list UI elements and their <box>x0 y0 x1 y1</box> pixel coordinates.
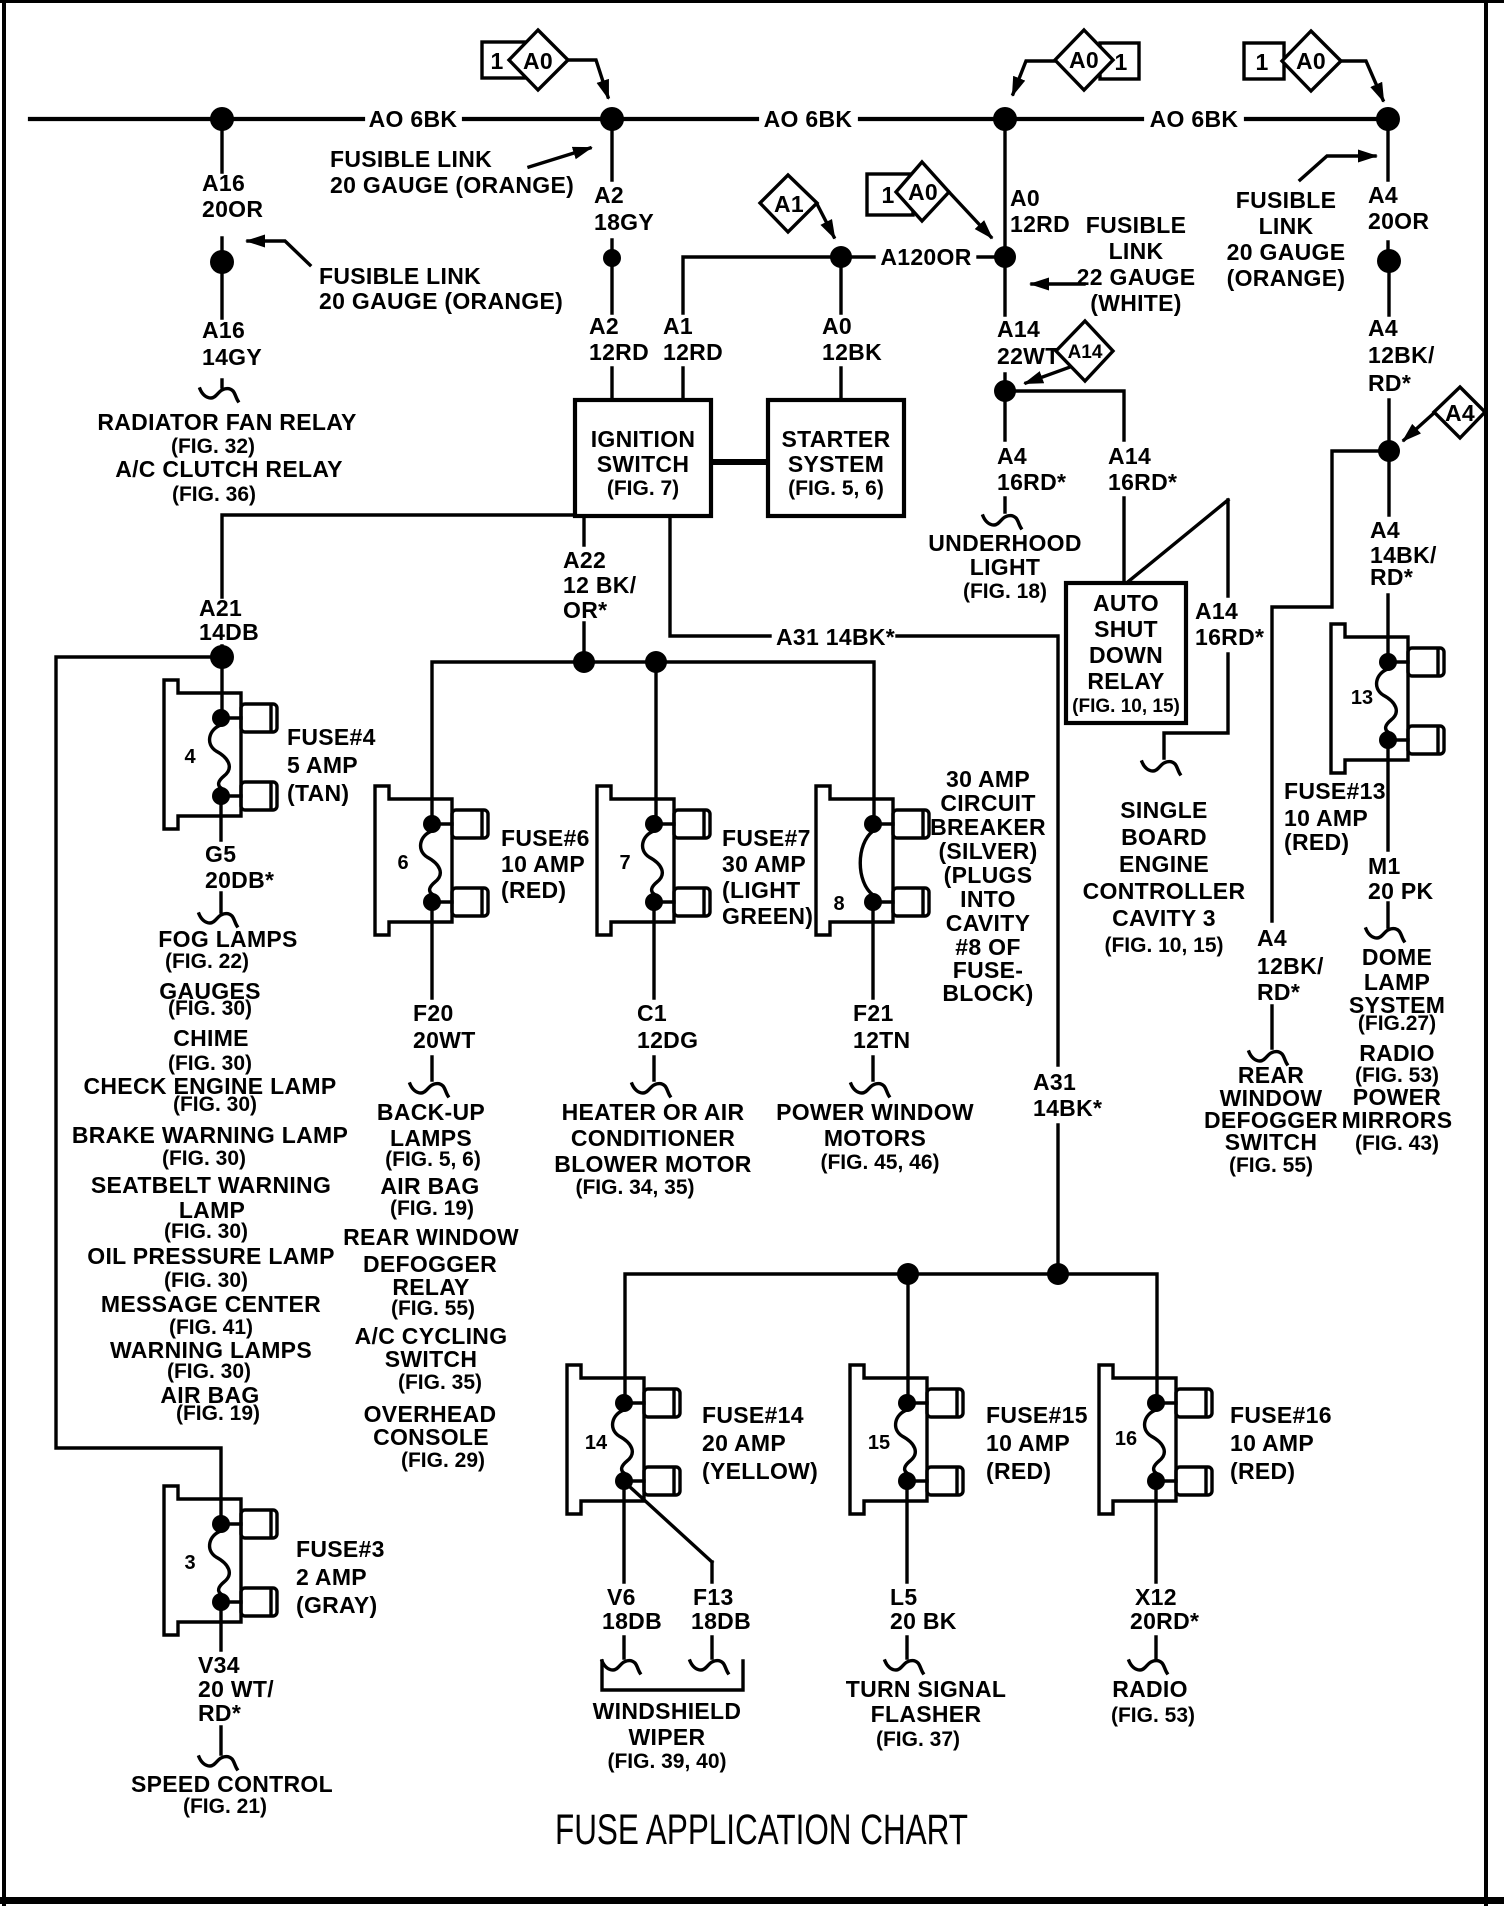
svg-text:4: 4 <box>184 746 196 768</box>
svg-text:SINGLE: SINGLE <box>1120 797 1207 823</box>
svg-text:AUTO: AUTO <box>1093 590 1159 616</box>
svg-text:A0: A0 <box>523 48 553 74</box>
connector to radiator fan relay <box>200 389 238 401</box>
svg-text:FUSE#3: FUSE#3 <box>296 1536 385 1562</box>
svg-text:DOWN: DOWN <box>1089 642 1163 668</box>
svg-text:(FIG. 55): (FIG. 55) <box>1229 1154 1313 1177</box>
arrow from ref A0/1 (middle) to bus junction 3 <box>1013 61 1055 94</box>
connector ref 1/A0 (left) <box>482 30 568 90</box>
node A14 junction <box>994 380 1016 402</box>
svg-text:12TN: 12TN <box>853 1027 910 1053</box>
arrow from ref A1 to A120OR node <box>817 204 834 237</box>
svg-text:FUSE#7: FUSE#7 <box>722 825 811 851</box>
svg-text:(FIG. 21): (FIG. 21) <box>183 1795 267 1818</box>
svg-text:CONTROLLER: CONTROLLER <box>1083 878 1246 904</box>
wire A0 12BK <box>839 268 842 400</box>
svg-text:(GRAY): (GRAY) <box>296 1592 377 1618</box>
svg-text:(FIG. 5, 6): (FIG. 5, 6) <box>788 477 884 500</box>
svg-text:HEATER OR AIR: HEATER OR AIR <box>562 1099 745 1125</box>
svg-text:(WHITE): (WHITE) <box>1090 290 1182 316</box>
svg-text:12 BK/: 12 BK/ <box>563 572 637 598</box>
svg-text:MIRRORS: MIRRORS <box>1342 1107 1453 1133</box>
svg-text:AO 6BK: AO 6BK <box>1150 106 1239 132</box>
svg-text:12DG: 12DG <box>637 1027 698 1053</box>
fuse 16 <box>1099 1365 1212 1514</box>
wire A22 fuse bus <box>432 662 874 824</box>
svg-text:A0: A0 <box>1010 185 1040 211</box>
svg-text:(FIG. 22): (FIG. 22) <box>165 950 249 973</box>
svg-text:A1: A1 <box>663 313 693 339</box>
node A21 junction <box>210 645 234 669</box>
svg-text:A16: A16 <box>202 170 245 196</box>
svg-text:20 WT/: 20 WT/ <box>198 1676 274 1702</box>
connector to single board engine controller <box>1142 762 1180 774</box>
wire A1 12RD <box>683 257 836 400</box>
svg-text:14GY: 14GY <box>202 344 262 370</box>
svg-text:20RD*: 20RD* <box>1130 1608 1199 1634</box>
svg-text:14BK*: 14BK* <box>1033 1095 1102 1121</box>
svg-text:RD*: RD* <box>1257 979 1300 1005</box>
node bus junction 1 <box>210 107 234 131</box>
fuse 7 <box>597 786 710 935</box>
fuse 6 <box>375 786 488 935</box>
wire A21 from ignition switch <box>222 515 575 651</box>
svg-text:FUSE#15: FUSE#15 <box>986 1402 1088 1428</box>
svg-text:A21: A21 <box>199 595 242 621</box>
connector to underhood light <box>983 516 1021 528</box>
svg-text:(FIG. 36): (FIG. 36) <box>172 483 256 506</box>
svg-text:(FIG. 39, 40): (FIG. 39, 40) <box>607 1750 726 1773</box>
wire X12 20RD <box>1154 1481 1157 1658</box>
node bus junction 2 <box>600 107 624 131</box>
svg-text:RADIATOR FAN RELAY: RADIATOR FAN RELAY <box>97 409 356 435</box>
fuse 14 <box>567 1365 680 1514</box>
arrow pointer to A4 wire <box>1300 156 1375 180</box>
svg-text:(FIG. 30): (FIG. 30) <box>168 1052 252 1075</box>
wire A16 from bus to fusible link node <box>220 130 223 251</box>
svg-text:SWITCH: SWITCH <box>597 451 690 477</box>
bracket grouping windshield wiper wires <box>602 1661 743 1690</box>
svg-text:(FIG. 18): (FIG. 18) <box>963 580 1047 603</box>
circuit breaker 8 <box>816 786 929 935</box>
box IGNITION SWITCH <box>575 400 711 516</box>
node A16 fusible link <box>210 250 234 274</box>
svg-text:SYSTEM: SYSTEM <box>788 451 884 477</box>
svg-text:(FIG. 5, 6): (FIG. 5, 6) <box>385 1148 481 1171</box>
svg-text:18GY: 18GY <box>594 209 654 235</box>
svg-text:A0: A0 <box>822 313 852 339</box>
svg-text:RADIO: RADIO <box>1112 1676 1188 1702</box>
svg-text:IGNITION: IGNITION <box>591 426 696 452</box>
svg-text:BOARD: BOARD <box>1121 824 1207 850</box>
svg-text:CONSOLE: CONSOLE <box>373 1424 489 1450</box>
svg-text:2 AMP: 2 AMP <box>296 1564 367 1590</box>
svg-text:(FIG. 7): (FIG. 7) <box>607 477 679 500</box>
connector windshield wiper left <box>602 1661 640 1673</box>
svg-text:A2: A2 <box>589 313 619 339</box>
svg-text:V6: V6 <box>607 1584 636 1610</box>
svg-text:FLASHER: FLASHER <box>871 1701 982 1727</box>
svg-text:20OR: 20OR <box>1368 208 1429 234</box>
svg-text:(FIG. 32): (FIG. 32) <box>171 435 255 458</box>
svg-text:12BK: 12BK <box>822 339 882 365</box>
wire C1 12DG <box>652 902 655 1080</box>
svg-text:13: 13 <box>1351 687 1373 709</box>
svg-text:A2: A2 <box>594 182 624 208</box>
svg-text:A0: A0 <box>1296 48 1326 74</box>
wire V34 20WT/RD <box>219 1602 222 1754</box>
svg-text:12RD: 12RD <box>589 339 649 365</box>
svg-text:FUSIBLE LINK: FUSIBLE LINK <box>319 263 481 289</box>
svg-text:A4: A4 <box>1257 925 1287 951</box>
svg-text:15: 15 <box>868 1432 890 1454</box>
wire fuse 7 feed <box>654 662 657 824</box>
node bus junction 4 <box>1376 107 1400 131</box>
arrow from ref 1/A0 (right) to bus junction 4 <box>1341 61 1383 100</box>
connector to power window motors <box>851 1084 889 1096</box>
svg-text:G5: G5 <box>205 841 236 867</box>
svg-text:A120OR: A120OR <box>880 244 971 270</box>
svg-text:3: 3 <box>184 1552 195 1574</box>
svg-text:1: 1 <box>1114 49 1127 75</box>
svg-text:FUSIBLE: FUSIBLE <box>1086 212 1187 238</box>
svg-text:MOTORS: MOTORS <box>824 1125 926 1151</box>
svg-text:A31: A31 <box>1033 1069 1076 1095</box>
wire F21 12TN <box>871 902 874 1080</box>
svg-text:FUSE#16: FUSE#16 <box>1230 1402 1332 1428</box>
svg-text:20OR: 20OR <box>202 196 263 222</box>
connector to fog lamps group <box>199 914 237 926</box>
connector ref A0/1 (middle) <box>1055 30 1139 90</box>
wire F13 18DB diagonal <box>630 1487 712 1658</box>
svg-text:(FIG. 55): (FIG. 55) <box>391 1297 475 1320</box>
svg-text:(LIGHT: (LIGHT <box>722 877 800 903</box>
svg-text:FUSE#13: FUSE#13 <box>1284 778 1386 804</box>
svg-text:FUSE APPLICATION CHART: FUSE APPLICATION CHART <box>555 1806 968 1854</box>
svg-text:12BK/: 12BK/ <box>1257 953 1324 979</box>
svg-text:CAVITY 3: CAVITY 3 <box>1112 905 1216 931</box>
svg-text:ENGINE: ENGINE <box>1119 851 1209 877</box>
svg-text:(FIG. 10, 15): (FIG. 10, 15) <box>1104 934 1223 957</box>
svg-text:(FIG. 34, 35): (FIG. 34, 35) <box>575 1176 694 1199</box>
svg-text:SPEED CONTROL: SPEED CONTROL <box>131 1771 333 1797</box>
wire L5 20 BK <box>905 1481 908 1658</box>
svg-text:1: 1 <box>881 182 894 208</box>
wire A16 below link node <box>220 273 223 387</box>
svg-text:(FIG. 45, 46): (FIG. 45, 46) <box>820 1151 939 1174</box>
arrow pointer to A2 wire <box>529 148 590 167</box>
svg-text:20 PK: 20 PK <box>1368 878 1434 904</box>
node bottom bus junction (A31) <box>1047 1263 1069 1285</box>
connector to dome lamp system <box>1366 929 1404 941</box>
svg-text:A31 14BK*: A31 14BK* <box>776 624 895 650</box>
wire A31 14BK from ignition switch <box>670 516 1058 1263</box>
svg-text:AO 6BK: AO 6BK <box>764 106 853 132</box>
svg-text:20WT: 20WT <box>413 1027 476 1053</box>
svg-text:FUSE#14: FUSE#14 <box>702 1402 804 1428</box>
svg-text:A4: A4 <box>1370 517 1400 543</box>
svg-text:V34: V34 <box>198 1652 240 1678</box>
svg-text:14: 14 <box>585 1432 608 1454</box>
wire A14 16RD to auto shut down relay <box>1005 391 1124 583</box>
svg-text:(FIG. 30): (FIG. 30) <box>162 1147 246 1170</box>
svg-text:8: 8 <box>833 893 844 915</box>
svg-text:WINDSHIELD: WINDSHIELD <box>593 1698 742 1724</box>
svg-text:(FIG. 29): (FIG. 29) <box>401 1449 485 1472</box>
svg-text:A14: A14 <box>1108 443 1151 469</box>
svg-text:14DB: 14DB <box>199 619 259 645</box>
wire A14 22WT <box>1003 268 1006 381</box>
svg-text:18DB: 18DB <box>691 1608 751 1634</box>
wire bottom feed bus <box>625 1274 1157 1403</box>
svg-text:F20: F20 <box>413 1000 454 1026</box>
svg-text:AO 6BK: AO 6BK <box>369 106 458 132</box>
svg-text:BREAKER: BREAKER <box>930 814 1046 840</box>
wire A2 18GY <box>610 130 613 249</box>
svg-text:A0: A0 <box>1069 47 1099 73</box>
svg-text:BACK-UP: BACK-UP <box>377 1099 485 1125</box>
svg-text:30 AMP: 30 AMP <box>722 851 806 877</box>
wire A4 16RD to underhood light <box>1003 402 1006 512</box>
svg-text:BLOWER MOTOR: BLOWER MOTOR <box>554 1151 751 1177</box>
svg-text:A16: A16 <box>202 317 245 343</box>
svg-text:WIPER: WIPER <box>629 1724 706 1750</box>
svg-text:(FIG. 30): (FIG. 30) <box>164 1220 248 1243</box>
node bottom bus junction (fuse 15 feed) <box>897 1263 919 1285</box>
svg-text:1: 1 <box>1255 49 1268 75</box>
wire A2 12RD <box>610 267 613 400</box>
svg-text:10 AMP: 10 AMP <box>501 851 585 877</box>
connector to speed control <box>199 1757 237 1769</box>
svg-text:(FIG. 41): (FIG. 41) <box>169 1316 253 1339</box>
svg-text:BLOCK): BLOCK) <box>942 980 1033 1006</box>
svg-text:GREEN): GREEN) <box>722 903 813 929</box>
node A120OR junction left <box>830 246 852 268</box>
connector to rear window defogger switch <box>1249 1052 1287 1064</box>
svg-text:(SILVER): (SILVER) <box>938 838 1037 864</box>
svg-text:OR*: OR* <box>563 597 607 623</box>
svg-text:(FIG. 10, 15): (FIG. 10, 15) <box>1072 696 1180 717</box>
svg-text:16RD*: 16RD* <box>997 469 1066 495</box>
svg-text:F13: F13 <box>693 1584 734 1610</box>
svg-text:20 GAUGE (ORANGE): 20 GAUGE (ORANGE) <box>330 172 574 198</box>
arrow from ref A0 to A120OR right node <box>949 192 991 237</box>
node A120OR junction right <box>994 246 1016 268</box>
svg-text:A1: A1 <box>774 191 804 217</box>
fuse 15 <box>850 1365 963 1514</box>
svg-text:RADIO: RADIO <box>1359 1040 1435 1066</box>
svg-text:M1: M1 <box>1368 853 1401 879</box>
svg-text:RELAY: RELAY <box>1087 668 1164 694</box>
svg-text:INTO: INTO <box>960 886 1016 912</box>
wire A4 14BK/RD to fuse 13 <box>1388 462 1389 662</box>
svg-text:A4: A4 <box>1368 315 1398 341</box>
wire A21 into fuse 4 <box>220 668 223 718</box>
svg-text:10 AMP: 10 AMP <box>1230 1430 1314 1456</box>
node A4 fusible link <box>1377 249 1401 273</box>
connector to back-up lamps group <box>410 1084 448 1096</box>
connector windshield wiper right <box>690 1661 728 1673</box>
wire A4 12BK/RD to rear window defogger switch <box>1272 451 1389 1048</box>
arrow from ref A4 to A4 junction <box>1404 413 1434 440</box>
wire A14 16RD diagonal from relay box <box>1129 500 1228 758</box>
svg-text:REAR WINDOW: REAR WINDOW <box>343 1224 519 1250</box>
arrow pointer to A16 wire <box>248 241 310 265</box>
svg-text:A0: A0 <box>908 179 938 205</box>
wire A21 branch to fuse 3 feed <box>56 657 222 1524</box>
connector to heater blower motor <box>632 1084 670 1096</box>
wire A4 20OR <box>1386 130 1389 250</box>
svg-text:SHUT: SHUT <box>1094 616 1158 642</box>
svg-text:(RED): (RED) <box>1230 1458 1295 1484</box>
svg-text:FUSIBLE: FUSIBLE <box>1236 187 1337 213</box>
svg-text:A4: A4 <box>1368 182 1398 208</box>
svg-text:1: 1 <box>490 48 503 74</box>
svg-text:STARTER: STARTER <box>781 426 890 452</box>
wire fuse 15 feed <box>906 1274 909 1403</box>
svg-text:12BK/: 12BK/ <box>1368 342 1435 368</box>
svg-text:UNDERHOOD: UNDERHOOD <box>928 530 1081 556</box>
box AUTO SHUT DOWN RELAY <box>1066 583 1186 723</box>
connector ref 1/A0 (right) <box>1244 31 1341 91</box>
svg-text:POWER WINDOW: POWER WINDOW <box>776 1099 974 1125</box>
svg-text:16: 16 <box>1115 1428 1137 1450</box>
svg-text:RD*: RD* <box>198 1700 241 1726</box>
svg-text:22 GAUGE: 22 GAUGE <box>1077 264 1196 290</box>
node fuse 7 feed junction <box>645 651 667 673</box>
arrow from ref A14 to A14 junction <box>1026 367 1070 383</box>
svg-text:(FIG. 43): (FIG. 43) <box>1355 1132 1439 1155</box>
svg-text:A/C CLUTCH RELAY: A/C CLUTCH RELAY <box>115 456 343 482</box>
svg-text:CIRCUIT: CIRCUIT <box>940 790 1035 816</box>
svg-text:CAVITY: CAVITY <box>946 910 1030 936</box>
svg-text:20 GAUGE (ORANGE): 20 GAUGE (ORANGE) <box>319 288 563 314</box>
node A4 junction <box>1378 440 1400 462</box>
fuse 4 <box>164 680 277 829</box>
svg-text:(FIG.27): (FIG.27) <box>1358 1012 1436 1035</box>
svg-text:FUSE#4: FUSE#4 <box>287 724 376 750</box>
wire A120OR segments <box>852 255 994 258</box>
svg-text:16RD*: 16RD* <box>1195 624 1264 650</box>
svg-text:CHIME: CHIME <box>173 1025 249 1051</box>
svg-text:FOG LAMPS: FOG LAMPS <box>158 926 297 952</box>
svg-text:6: 6 <box>397 852 408 874</box>
svg-text:(RED): (RED) <box>1284 829 1349 855</box>
svg-text:5 AMP: 5 AMP <box>287 752 358 778</box>
svg-text:10 AMP: 10 AMP <box>1284 805 1368 831</box>
fuse 13 <box>1331 624 1444 773</box>
svg-text:20 BK: 20 BK <box>890 1608 957 1634</box>
svg-text:A4: A4 <box>997 443 1027 469</box>
svg-text:LINK: LINK <box>1259 213 1314 239</box>
svg-text:20 GAUGE: 20 GAUGE <box>1227 239 1346 265</box>
wire between ignition switch and starter system <box>711 459 768 465</box>
svg-text:20 AMP: 20 AMP <box>702 1430 786 1456</box>
svg-text:A22: A22 <box>563 547 606 573</box>
svg-text:A14: A14 <box>1195 598 1238 624</box>
arrow from ref 1/A0 (left) to bus junction 2 <box>568 60 608 97</box>
svg-text:12RD: 12RD <box>663 339 723 365</box>
svg-text:SWITCH: SWITCH <box>1225 1129 1318 1155</box>
svg-text:18DB: 18DB <box>602 1608 662 1634</box>
svg-text:(FIG. 19): (FIG. 19) <box>390 1197 474 1220</box>
svg-text:(FIG. 30): (FIG. 30) <box>168 997 252 1020</box>
wire A0 6BK top bus <box>30 117 1394 121</box>
connector to turn signal flasher <box>885 1661 923 1673</box>
svg-text:OIL PRESSURE LAMP: OIL PRESSURE LAMP <box>87 1243 335 1269</box>
svg-text:(FIG. 53): (FIG. 53) <box>1111 1704 1195 1727</box>
svg-text:F21: F21 <box>853 1000 894 1026</box>
wire A22 12BK/OR <box>582 516 585 651</box>
svg-text:(FIG. 37): (FIG. 37) <box>876 1728 960 1751</box>
svg-text:(ORANGE): (ORANGE) <box>1227 265 1346 291</box>
svg-text:C1: C1 <box>637 1000 667 1026</box>
svg-text:SWITCH: SWITCH <box>385 1346 478 1372</box>
svg-text:X12: X12 <box>1135 1584 1177 1610</box>
svg-text:BRAKE WARNING LAMP: BRAKE WARNING LAMP <box>72 1122 348 1148</box>
svg-text:SEATBELT WARNING: SEATBELT WARNING <box>91 1172 331 1198</box>
svg-text:(FIG. 30): (FIG. 30) <box>167 1360 251 1383</box>
svg-text:(FIG. 30): (FIG. 30) <box>164 1269 248 1292</box>
svg-text:(YELLOW): (YELLOW) <box>702 1458 818 1484</box>
svg-text:(RED): (RED) <box>501 877 566 903</box>
svg-text:A14: A14 <box>1068 342 1103 363</box>
svg-text:(FIG. 30): (FIG. 30) <box>173 1093 257 1116</box>
svg-text:20DB*: 20DB* <box>205 867 274 893</box>
svg-text:16RD*: 16RD* <box>1108 469 1177 495</box>
svg-text:(TAN): (TAN) <box>287 780 349 806</box>
svg-text:(PLUGS: (PLUGS <box>944 862 1033 888</box>
svg-text:(FIG. 35): (FIG. 35) <box>398 1371 482 1394</box>
svg-text:RD*: RD* <box>1368 370 1411 396</box>
svg-text:RD*: RD* <box>1370 564 1413 590</box>
svg-text:AIR BAG: AIR BAG <box>380 1173 479 1199</box>
svg-text:LIGHT: LIGHT <box>970 554 1041 580</box>
arrow pointer to A14 wire <box>1032 282 1084 285</box>
svg-text:TURN SIGNAL: TURN SIGNAL <box>846 1676 1006 1702</box>
svg-text:CONDITIONER: CONDITIONER <box>571 1125 735 1151</box>
connector ref A1 diamond <box>760 175 817 232</box>
svg-text:10 AMP: 10 AMP <box>986 1430 1070 1456</box>
wire M1 20 PK <box>1386 740 1389 927</box>
svg-text:FUSE#6: FUSE#6 <box>501 825 590 851</box>
svg-text:12RD: 12RD <box>1010 211 1070 237</box>
node bus junction 3 <box>993 107 1017 131</box>
svg-text:DOME: DOME <box>1362 944 1432 970</box>
svg-text:A4: A4 <box>1445 400 1475 426</box>
svg-text:7: 7 <box>619 852 630 874</box>
svg-text:(RED): (RED) <box>986 1458 1051 1484</box>
box STARTER SYSTEM <box>768 400 904 516</box>
wire V6 18DB <box>622 1481 625 1658</box>
wire G5 20DB <box>219 796 222 912</box>
fuse 3 <box>164 1486 277 1635</box>
connector ref A14 diamond <box>1056 321 1113 381</box>
svg-text:LINK: LINK <box>1109 238 1164 264</box>
connector to radio <box>1129 1661 1167 1673</box>
svg-text:30 AMP: 30 AMP <box>946 766 1030 792</box>
node A22 junction <box>573 651 595 673</box>
svg-text:FUSIBLE LINK: FUSIBLE LINK <box>330 146 492 172</box>
connector ref 1/A0 (A120OR) <box>867 162 949 221</box>
wire A4 12BK/RD <box>1387 272 1390 440</box>
node A2 splice <box>603 249 621 267</box>
svg-text:(FIG. 19): (FIG. 19) <box>176 1402 260 1425</box>
svg-text:22WT: 22WT <box>997 343 1060 369</box>
svg-text:L5: L5 <box>890 1584 917 1610</box>
svg-text:A14: A14 <box>997 316 1040 342</box>
wire F20 20WT <box>430 902 433 1080</box>
